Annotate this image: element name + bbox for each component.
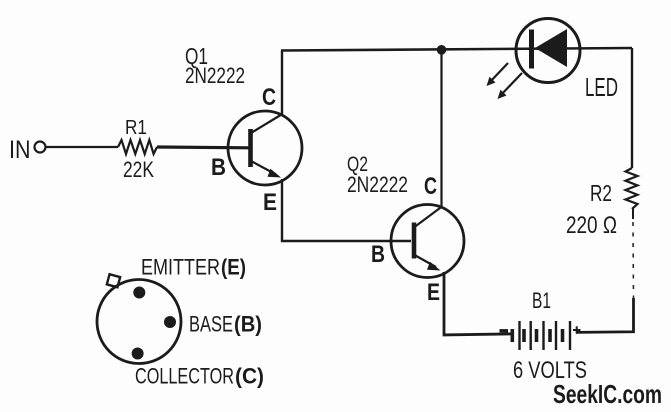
wire R1 to Q1 base xyxy=(157,145,249,149)
svg-text:R2: R2 xyxy=(590,180,612,206)
battery minus sign xyxy=(500,329,509,332)
wire junction to Q2 collector xyxy=(440,50,442,207)
svg-text:C: C xyxy=(424,173,437,200)
svg-text:2N2222: 2N2222 xyxy=(347,172,408,197)
pinout collector pin dot xyxy=(132,348,144,360)
resistor R2 xyxy=(626,168,638,209)
LED light emission arrows xyxy=(487,63,523,99)
svg-text:B: B xyxy=(371,241,385,268)
LED xyxy=(516,19,580,83)
wire right rail down to R2 xyxy=(631,48,633,168)
svg-text:(C): (C) xyxy=(235,364,264,389)
transistor Q2 xyxy=(391,205,464,278)
battery B1 xyxy=(512,321,570,350)
transistor pinout case outline xyxy=(97,274,181,363)
wire IN to R1 xyxy=(46,146,118,148)
svg-text:SeekIC.com: SeekIC.com xyxy=(553,379,662,409)
label COLLECTOR(C) xyxy=(135,364,264,389)
resistor R1 xyxy=(118,140,157,154)
battery plus sign xyxy=(573,326,581,333)
svg-text:LED: LED xyxy=(585,72,618,102)
svg-text:COLLECTOR: COLLECTOR xyxy=(135,364,234,389)
wire Q1 collector up xyxy=(281,50,283,114)
svg-text:220 Ω: 220 Ω xyxy=(566,212,617,239)
wire R2 to bottom corner (faded dashes) xyxy=(632,209,634,219)
wire battery to Q2 emitter (bottom left) xyxy=(444,272,511,335)
pinout base pin dot xyxy=(164,316,176,328)
svg-text:E: E xyxy=(263,189,277,216)
label EMITTER(E) xyxy=(141,255,246,280)
label BASE(B) xyxy=(189,312,262,337)
svg-text:R1: R1 xyxy=(125,117,147,139)
wire Q1 emitter to Q2 base xyxy=(282,179,411,241)
transistor Q1 xyxy=(228,111,302,185)
pinout emitter pin dot xyxy=(133,287,145,299)
wire top rail xyxy=(281,48,632,51)
svg-text:2N2222: 2N2222 xyxy=(185,63,245,88)
svg-text:(B): (B) xyxy=(234,312,262,337)
svg-text:BASE: BASE xyxy=(189,312,233,337)
node IN terminal xyxy=(35,142,46,153)
svg-text:22K: 22K xyxy=(123,157,154,182)
svg-text:C: C xyxy=(262,84,276,111)
node junction at top rail xyxy=(437,45,447,55)
svg-text:E: E xyxy=(427,279,440,306)
svg-text:IN: IN xyxy=(9,136,31,164)
svg-text:EMITTER: EMITTER xyxy=(141,255,220,280)
wire bottom right corner xyxy=(576,298,634,332)
svg-text:B1: B1 xyxy=(532,288,551,313)
svg-text:B: B xyxy=(211,154,226,181)
svg-text:(E): (E) xyxy=(221,255,246,280)
